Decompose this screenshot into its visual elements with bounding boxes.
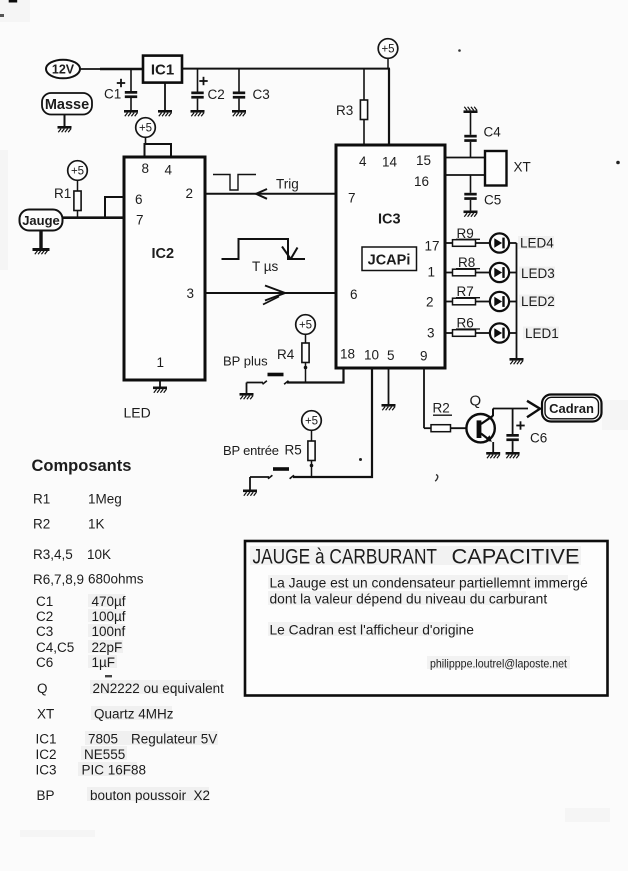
- svg-text:12V: 12V: [52, 63, 75, 77]
- svg-text:1: 1: [157, 355, 165, 370]
- svg-text:R2: R2: [33, 517, 50, 532]
- svg-text:R1: R1: [54, 186, 71, 201]
- svg-text:C4: C4: [484, 125, 502, 140]
- svg-text:5: 5: [387, 348, 395, 363]
- svg-text:Le Cadran est l'afficheur d'or: Le Cadran est l'afficheur d'origine: [270, 623, 475, 638]
- svg-text:16: 16: [414, 174, 429, 189]
- svg-text:C3: C3: [36, 624, 53, 639]
- svg-text:IC2: IC2: [152, 246, 175, 262]
- svg-text:22pF: 22pF: [92, 640, 123, 655]
- svg-text:3: 3: [427, 326, 435, 341]
- svg-text:7: 7: [136, 213, 144, 228]
- svg-text:10K: 10K: [87, 547, 111, 562]
- svg-text:2: 2: [186, 186, 194, 201]
- svg-text:C6: C6: [530, 431, 547, 446]
- svg-text:4: 4: [165, 163, 173, 178]
- svg-text:17: 17: [425, 239, 440, 254]
- svg-text:100µf: 100µf: [92, 609, 126, 624]
- svg-text:9: 9: [420, 349, 428, 364]
- svg-text:C1: C1: [36, 594, 53, 609]
- svg-text:2: 2: [426, 295, 434, 310]
- svg-text:BP: BP: [37, 788, 55, 803]
- svg-text:7805: 7805: [88, 732, 118, 747]
- svg-text:Quartz 4MHz: Quartz 4MHz: [94, 707, 174, 722]
- svg-text:R7: R7: [457, 284, 474, 299]
- svg-text:7: 7: [348, 191, 356, 206]
- svg-text:LED: LED: [124, 405, 151, 421]
- svg-text:R5: R5: [285, 443, 302, 458]
- svg-text:R3: R3: [336, 103, 353, 118]
- svg-text:Regulateur 5V: Regulateur 5V: [131, 732, 217, 747]
- svg-text:R6,7,8,9: R6,7,8,9: [33, 572, 84, 587]
- svg-text:XT: XT: [514, 160, 531, 175]
- svg-text:philipppe.loutrel@laposte.net: philipppe.loutrel@laposte.net: [430, 657, 568, 671]
- svg-text:Composants: Composants: [32, 457, 132, 475]
- svg-text:Jauge: Jauge: [22, 213, 60, 228]
- svg-text:BP entrée: BP entrée: [223, 443, 279, 458]
- svg-text:T µs: T µs: [252, 259, 279, 274]
- svg-text:3: 3: [187, 286, 195, 301]
- svg-text:6: 6: [350, 287, 358, 302]
- svg-text:X2: X2: [194, 788, 211, 803]
- svg-text:CAPACITIVE: CAPACITIVE: [452, 545, 580, 569]
- svg-text:4: 4: [359, 154, 367, 169]
- svg-text:470µf: 470µf: [92, 594, 126, 609]
- svg-text:JCAPi: JCAPi: [368, 253, 411, 269]
- svg-text:Masse: Masse: [45, 97, 89, 113]
- svg-text:1K: 1K: [88, 517, 105, 532]
- svg-text:XT: XT: [37, 707, 54, 722]
- svg-text:IC1: IC1: [36, 732, 57, 747]
- svg-text:R3,4,5: R3,4,5: [33, 547, 73, 562]
- svg-text:Trig: Trig: [276, 177, 299, 192]
- svg-text:680ohms: 680ohms: [88, 572, 144, 587]
- svg-text:R2: R2: [433, 401, 450, 416]
- svg-text:IC2: IC2: [36, 747, 57, 762]
- svg-text:NE555: NE555: [84, 747, 125, 762]
- svg-text:R4: R4: [277, 347, 295, 362]
- svg-text:1µF: 1µF: [92, 655, 116, 670]
- svg-text:LED2: LED2: [521, 294, 555, 309]
- svg-text:IC3: IC3: [378, 212, 401, 228]
- svg-text:LED4: LED4: [520, 235, 554, 250]
- svg-text:8: 8: [142, 161, 150, 176]
- svg-text:bouton poussoir: bouton poussoir: [90, 788, 187, 803]
- svg-text:C6: C6: [36, 655, 53, 670]
- svg-text:C4,C5: C4,C5: [36, 640, 74, 655]
- svg-text:PIC 16F88: PIC 16F88: [82, 763, 147, 778]
- svg-text:R9: R9: [457, 226, 474, 241]
- svg-text:18: 18: [340, 347, 355, 362]
- svg-text:dont la valeur dépend du nivea: dont la valeur dépend du niveau du carbu…: [270, 592, 548, 607]
- svg-text:Cadran: Cadran: [549, 401, 594, 416]
- svg-text:14: 14: [382, 155, 398, 170]
- svg-text:C1: C1: [104, 87, 121, 102]
- svg-text:IC1: IC1: [151, 62, 174, 79]
- svg-text:Q: Q: [470, 393, 482, 410]
- svg-text:15: 15: [416, 153, 431, 168]
- svg-text:LED3: LED3: [521, 266, 555, 281]
- svg-text:1Meg: 1Meg: [88, 492, 122, 507]
- svg-text:LED1: LED1: [525, 326, 559, 341]
- svg-text:C2: C2: [208, 87, 225, 102]
- svg-text:6: 6: [135, 192, 143, 207]
- svg-text:La Jauge est un condensateur p: La Jauge est un condensateur partiellemn…: [270, 576, 589, 591]
- svg-text:BP plus: BP plus: [223, 354, 268, 369]
- svg-text:R8: R8: [458, 255, 475, 270]
- svg-text:R1: R1: [33, 492, 50, 507]
- svg-text:10: 10: [364, 348, 379, 363]
- svg-text:IC3: IC3: [36, 763, 57, 778]
- svg-text:C5: C5: [484, 193, 501, 208]
- svg-text:R6: R6: [457, 315, 474, 330]
- svg-text:1: 1: [428, 265, 436, 280]
- svg-text:C2: C2: [36, 609, 53, 624]
- svg-text:C3: C3: [253, 87, 270, 102]
- svg-text:2N2222 ou equivalent: 2N2222 ou equivalent: [93, 681, 225, 696]
- svg-text:100nf: 100nf: [92, 624, 126, 639]
- svg-text:JAUGE à CARBURANT: JAUGE à CARBURANT: [253, 545, 438, 569]
- svg-text:Q: Q: [37, 681, 48, 696]
